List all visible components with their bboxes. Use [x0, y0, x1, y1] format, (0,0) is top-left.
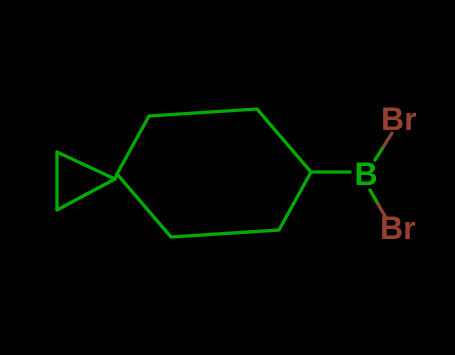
benzene ring [117, 109, 311, 237]
bond apex to ring [115, 174, 117, 179]
wire top edge [57, 152, 115, 179]
wire bottom edge [57, 179, 115, 210]
bond B to Br top (brown half) [384, 133, 393, 147]
svg-text:Br: Br [380, 210, 416, 246]
bond B to Br bottom (brown half) [378, 204, 386, 218]
cyclopropane ring [57, 152, 115, 210]
svg-text:Br: Br [381, 101, 417, 137]
bond B to Br top (green half) [375, 147, 384, 161]
bond ring to B [311, 170, 350, 173]
svg-text:B: B [354, 156, 377, 192]
wire left edge [55, 152, 58, 210]
bond B to Br bottom (green half) [370, 190, 378, 204]
